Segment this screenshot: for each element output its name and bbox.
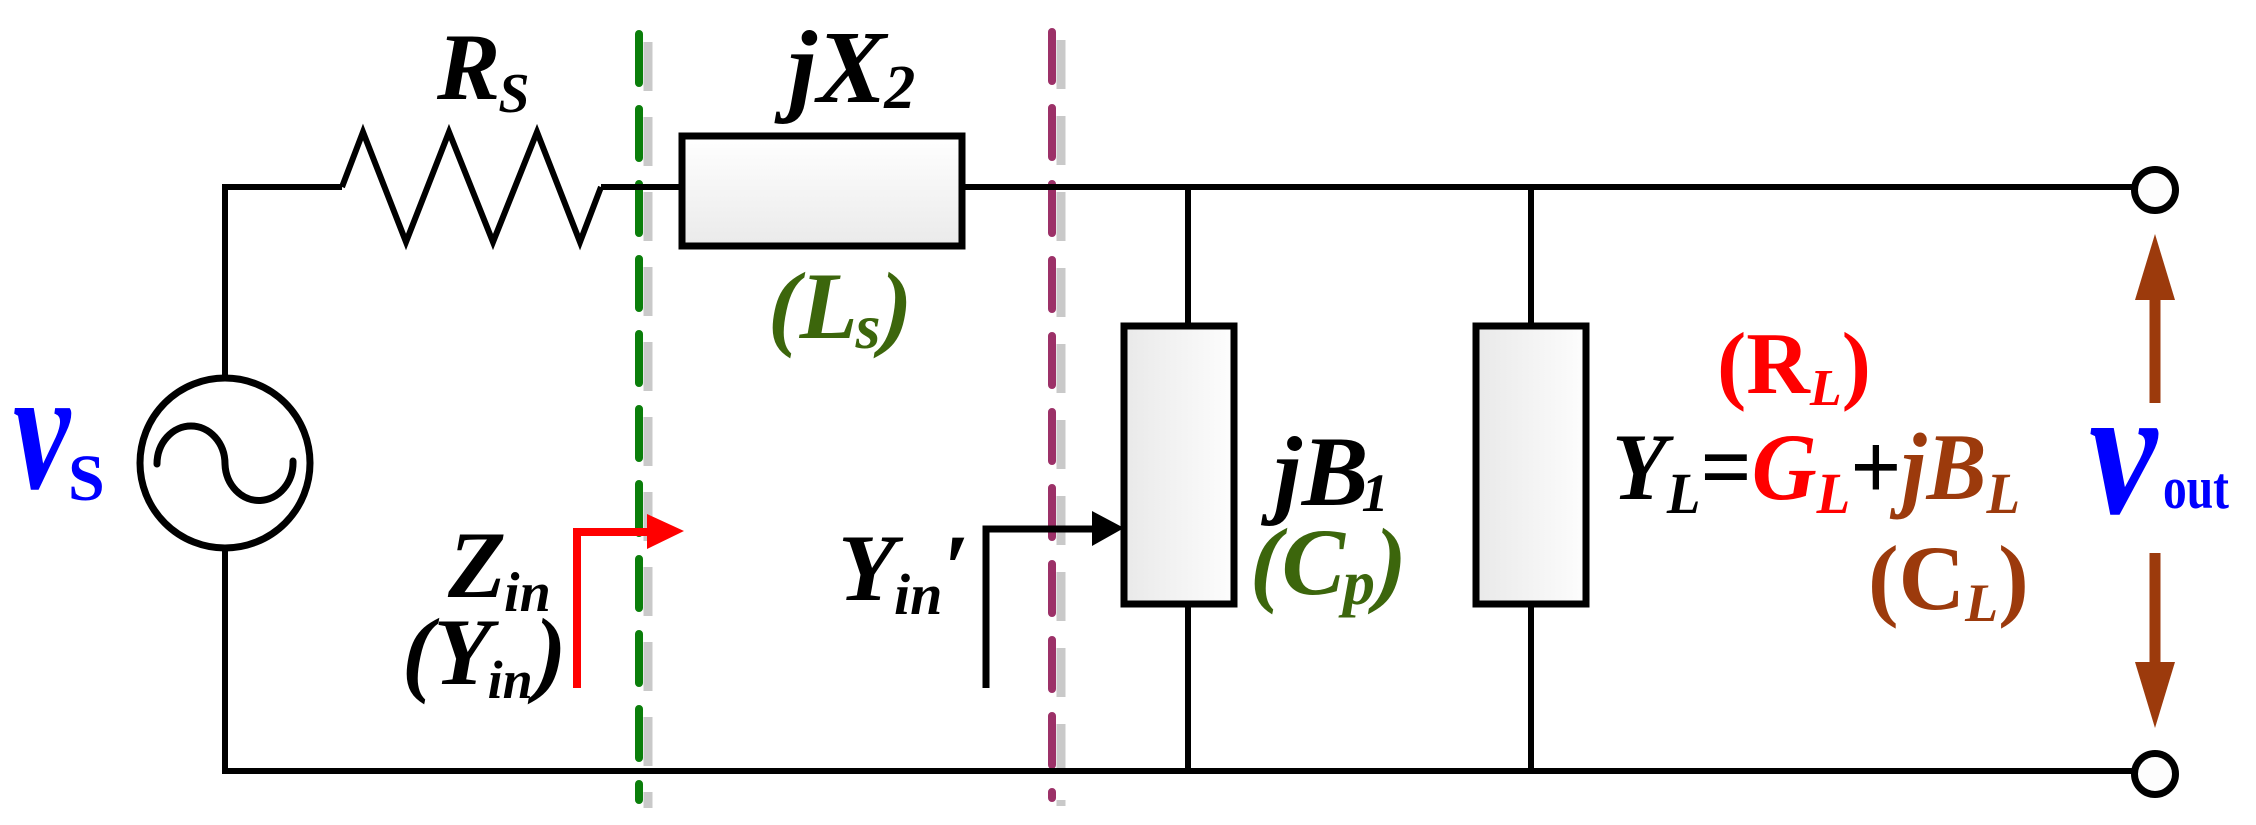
svg-text:(CL): (CL) [1868, 527, 2029, 633]
terminal top-right [2135, 170, 2176, 211]
reference plane Zin (green dashed line) [635, 34, 643, 800]
svg-text:YL=GL+jBL: YL=GL+jBL [1612, 414, 2020, 526]
source VS circle [140, 378, 310, 548]
svg-text:v: v [13, 335, 72, 527]
wire: stub bottom of load [1528, 600, 1534, 771]
terminal bottom-right [2135, 754, 2176, 795]
inductor jX2 box [682, 136, 962, 246]
Yin' measurement arrow (black) [986, 511, 1124, 688]
svg-text:(Yin): (Yin) [402, 599, 566, 710]
reference plane shadow (left, gray) [644, 42, 653, 808]
susceptance jB1 box [1124, 326, 1234, 604]
Vout arrow up (brown) [2135, 234, 2175, 403]
wire: stub bottom of jB1 [1185, 600, 1191, 771]
reference plane Yin' (purple dashed line) [1048, 32, 1056, 798]
source VS sine wave [157, 426, 293, 501]
svg-text:S: S [68, 442, 105, 515]
label VS [13, 335, 105, 527]
wire: left vertical below source [222, 548, 228, 774]
wire: bottom rail [222, 768, 2137, 774]
svg-text:out: out [2163, 455, 2229, 521]
svg-text:(Ls): (Ls) [768, 253, 912, 362]
svg-text:Yin′: Yin′ [838, 515, 969, 627]
Vout arrow down (brown) [2135, 553, 2175, 728]
svg-text:RS: RS [436, 14, 530, 125]
Zin measurement arrow (red) [577, 514, 684, 688]
svg-text:(Cp): (Cp) [1250, 509, 1407, 618]
load YL box [1476, 326, 1586, 604]
wire: inductor box to top-right terminal [962, 184, 2137, 190]
reference plane shadow (middle, gray) [1057, 40, 1066, 806]
wire: resistor to inductor box [601, 184, 682, 190]
svg-text:jX2: jX2 [774, 10, 915, 125]
wire: stub top of jB1 [1185, 187, 1191, 330]
wire: top left from source to resistor [225, 187, 342, 378]
wire: stub top of load [1528, 187, 1534, 330]
label Vout [2089, 349, 2229, 554]
resistor RS zigzag [342, 132, 601, 242]
svg-text:v: v [2089, 349, 2159, 554]
svg-text:(RL): (RL) [1717, 316, 1871, 417]
